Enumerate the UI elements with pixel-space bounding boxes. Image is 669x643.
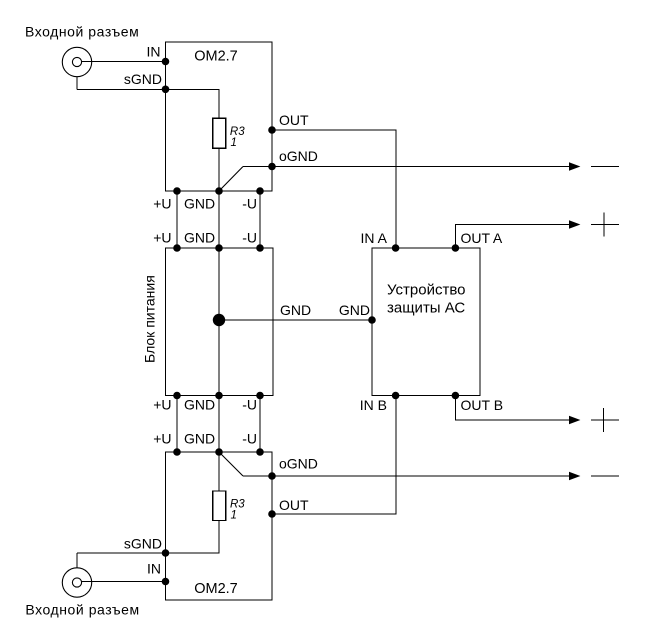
svg-text:OUT B: OUT B [461, 397, 504, 413]
wire OUT A to terminal [455, 225, 570, 249]
arrow OUT B [569, 416, 580, 424]
wire oGND top [243, 166, 570, 168]
wire OUT B to terminal [455, 396, 570, 421]
junction dots PSU top pins [173, 244, 181, 252]
svg-text:IN: IN [147, 43, 161, 59]
svg-text:GND: GND [339, 302, 370, 318]
svg-text:-U: -U [242, 431, 257, 447]
junction dot OUT bottom [268, 510, 276, 518]
svg-text:1: 1 [231, 510, 237, 522]
wire R3 top lead bottom amp [218, 452, 220, 491]
svg-text:oGND: oGND [279, 148, 318, 164]
svg-text:sGND: sGND [124, 536, 162, 552]
junction dot IN B [392, 392, 400, 400]
junction dot IN A [392, 244, 400, 252]
wire connector ground rise bottom [76, 553, 78, 568]
svg-text:-U: -U [242, 230, 257, 246]
svg-text:OUT A: OUT A [461, 230, 503, 246]
junction dot OUT top [268, 126, 276, 134]
svg-text:защиты АС: защиты АС [387, 299, 465, 316]
wire GND amp1 to PSU [218, 191, 220, 248]
wire R3 bottom lead top [218, 148, 220, 191]
wire GND to protection [219, 319, 372, 321]
svg-text:ОМ2.7: ОМ2.7 [194, 48, 238, 64]
terminal plus B [591, 419, 619, 421]
junction dots amp2 top pins [173, 448, 181, 456]
power supply box [166, 248, 274, 396]
terminal minus top [591, 166, 619, 168]
svg-text:-U: -U [242, 397, 257, 413]
op-amp module U2 OM2.7 (bottom) [166, 452, 273, 600]
svg-text:GND: GND [184, 431, 215, 447]
svg-text:-U: -U [242, 196, 257, 212]
junction dot sGND bottom [162, 549, 170, 557]
wire diagonal GND-oGND top [219, 167, 243, 192]
svg-text:ОМ2.7: ОМ2.7 [194, 581, 238, 597]
svg-text:+U: +U [153, 397, 171, 413]
svg-text:IN B: IN B [360, 397, 387, 413]
svg-text:IN: IN [147, 561, 161, 577]
svg-text:IN A: IN A [361, 230, 388, 246]
wire GND PSU to amp2 [218, 396, 220, 453]
junction dot OUT B [452, 392, 460, 400]
wire OUT bottom [272, 396, 396, 515]
svg-text:oGND: oGND [279, 456, 318, 472]
svg-text:sGND: sGND [124, 71, 162, 87]
terminal plus A [591, 224, 619, 226]
svg-text:GND: GND [184, 230, 215, 246]
junction dots amp1 bottom pins [173, 187, 181, 195]
svg-text:Блок питания: Блок питания [142, 275, 158, 363]
wire -U amp1 to PSU [259, 191, 261, 248]
resistor R3 (bottom) [213, 491, 226, 521]
junction dot IN bottom [162, 578, 170, 586]
svg-text:Входной разъем: Входной разъем [25, 602, 139, 618]
connector XS1 (top input jack) [62, 47, 91, 76]
wire oGND bottom [243, 475, 570, 477]
svg-text:+U: +U [153, 196, 171, 212]
speaker protection box [372, 248, 480, 396]
wire sGND top [77, 89, 219, 118]
svg-text:GND: GND [184, 196, 215, 212]
junction dot GND protection [368, 316, 376, 324]
junction dot oGND bottom [268, 472, 276, 480]
wire OUT top [272, 130, 396, 248]
svg-text:OUT: OUT [279, 497, 309, 513]
svg-text:+U: +U [153, 431, 171, 447]
wire diagonal GND-oGND bottom [219, 452, 243, 476]
svg-text:+U: +U [153, 230, 171, 246]
arrow oGND bottom [569, 472, 580, 480]
svg-text:OUT: OUT [279, 112, 309, 128]
svg-text:Устройство: Устройство [387, 282, 465, 299]
wire +U PSU to amp2 [176, 396, 178, 453]
arrow OUT A [569, 220, 580, 228]
resistor R3 (top) [213, 118, 226, 148]
junction dots PSU bottom pins [173, 392, 181, 400]
svg-text:Входной разъем: Входной разъем [25, 24, 139, 40]
wire IN top [82, 61, 166, 63]
wire -U PSU to amp2 [259, 396, 261, 453]
junction dot OUT A [452, 244, 460, 252]
wire +U amp1 to PSU [176, 191, 178, 248]
svg-text:1: 1 [231, 137, 237, 149]
arrow oGND top [569, 162, 580, 170]
terminal minus bottom [591, 475, 619, 477]
wire PSU internal GND bus [218, 248, 220, 396]
wire sGND bottom [77, 521, 219, 554]
wire IN bottom [82, 581, 166, 583]
junction dot sGND top [162, 86, 170, 94]
wire connector ground drop top [76, 77, 78, 90]
junction dot oGND top [268, 163, 276, 171]
op-amp module U1 OM2.7 (top) [166, 42, 273, 191]
connector XS2 (bottom input jack) [62, 568, 91, 597]
svg-text:GND: GND [184, 397, 215, 413]
ground node big dot [213, 314, 225, 326]
junction dot IN top [162, 58, 170, 66]
svg-text:GND: GND [280, 302, 311, 318]
